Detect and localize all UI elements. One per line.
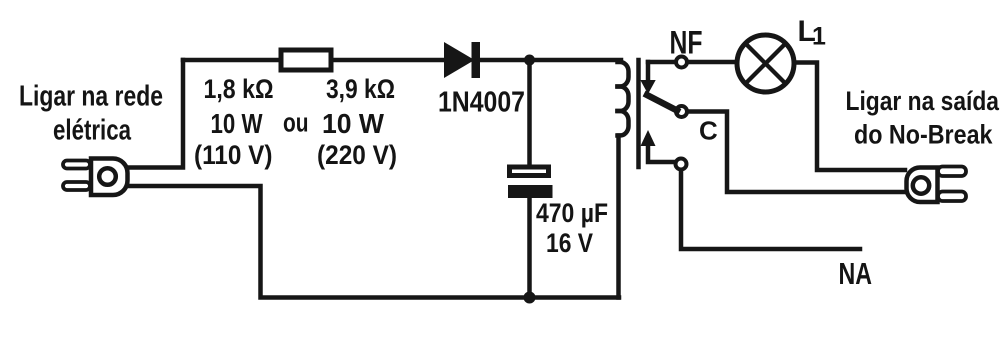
svg-text:ou: ou xyxy=(283,108,309,138)
svg-text:1N4007: 1N4007 xyxy=(438,87,525,119)
svg-text:10 W: 10 W xyxy=(322,108,385,139)
svg-text:do No-Break: do No-Break xyxy=(854,120,993,150)
svg-text:16 V: 16 V xyxy=(546,228,593,258)
svg-text:470 µF: 470 µF xyxy=(536,198,608,228)
svg-text:3,9 kΩ: 3,9 kΩ xyxy=(326,74,395,104)
svg-text:NA: NA xyxy=(839,256,873,291)
svg-text:(220 V): (220 V) xyxy=(317,140,397,170)
svg-text:elétrica: elétrica xyxy=(53,115,132,147)
svg-text:1,8 kΩ: 1,8 kΩ xyxy=(204,74,274,104)
svg-text:(110 V): (110 V) xyxy=(194,140,273,170)
svg-text:1: 1 xyxy=(812,23,826,51)
svg-text:C: C xyxy=(699,116,718,146)
svg-text:NF: NF xyxy=(670,25,703,61)
svg-text:10 W: 10 W xyxy=(211,108,263,139)
svg-text:Ligar na rede: Ligar na rede xyxy=(19,81,163,113)
svg-text:Ligar na saída: Ligar na saída xyxy=(846,86,1000,116)
